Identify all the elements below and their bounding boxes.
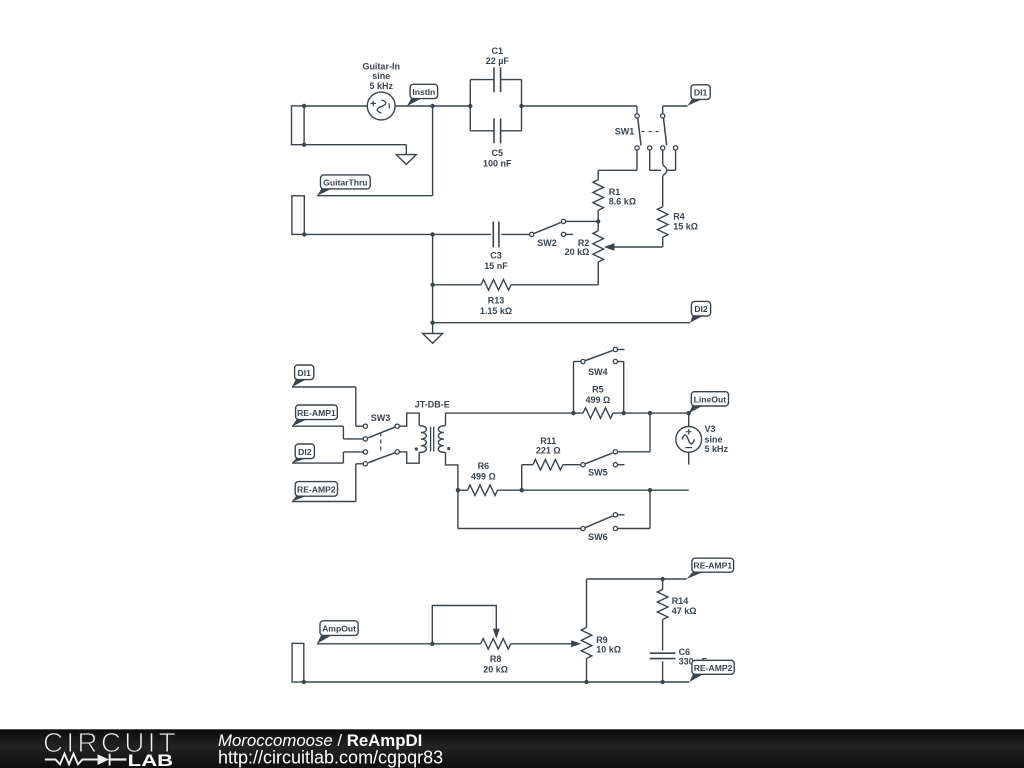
wire SW4 common riser [574,362,581,414]
svg-text:R14: R14 [672,596,689,606]
wire SW3 pole1 to T1 primary top [399,413,419,426]
svg-text:RE-AMP1: RE-AMP1 [297,408,336,418]
flag GuitarThru [317,175,370,196]
svg-text:SW2: SW2 [537,238,557,248]
svg-text:R11: R11 [540,436,556,446]
capacitor C3 [493,222,499,248]
node R9 bottom junction [584,680,588,684]
switch SW4 lever [585,351,612,361]
switch SW3 throw2b [363,462,367,466]
transformer T1 secondary winding [438,425,445,452]
switch SW5 throw1 [613,450,617,454]
resistor R14 [657,579,668,651]
transformer T1 phase dot secondary [447,447,450,450]
wire InstIn down to GuitarThru [432,106,434,196]
svg-text:20 kΩ: 20 kΩ [483,664,508,674]
svg-text:R5: R5 [592,384,604,394]
svg-text:20 kΩ: 20 kΩ [565,247,590,257]
potentiometer R9 [581,579,592,682]
flag LineOut [689,392,729,413]
node SW6 riser junction [648,488,652,492]
svg-text:10 kΩ: 10 kΩ [596,645,621,655]
label R2 [565,238,590,257]
transformer T1 phase dot primary [415,447,418,450]
svg-text:RE-AMP2: RE-AMP2 [694,663,733,673]
node R8 wiper junction [430,642,434,646]
svg-text:SW6: SW6 [588,532,608,542]
wire SW1 throw1b down [649,150,651,170]
wire bottom rail [304,681,690,683]
svg-text:SW4: SW4 [588,367,608,377]
svg-text:AmpOut: AmpOut [322,624,356,634]
switch SW3 throw1a [363,424,367,428]
wire C1C5 box [470,80,521,131]
label SW2 [537,238,557,248]
capacitor C5 [494,118,501,143]
wire to R6 [458,489,468,491]
switch SW3 throw2a [363,450,367,454]
label R11 [536,436,561,456]
footer bar [0,729,1024,768]
svg-text:499 Ω: 499 Ω [471,472,496,482]
switch SW6 lever [585,516,612,528]
label SW3 [371,413,391,423]
label R9 [596,635,621,655]
switch SW6 common [581,526,585,530]
label T1 JT-DB-E [415,400,450,410]
resistor R4 [657,207,668,247]
capacitor C6 [650,653,676,658]
wire jack J1 tip to V1 [304,105,367,107]
wire T1 secondary top rail [446,413,689,425]
label C1 [486,46,510,66]
switch SW2 lever [534,223,561,234]
label SW5 [588,467,608,477]
wire SW3 pole2 to T1 primary bottom [399,452,419,463]
label R13 [480,295,512,316]
wire SW5 throw1 riser [618,413,650,452]
svg-text:SW1: SW1 [615,127,635,137]
wire C3 to SW2 [501,233,529,235]
label R8 [483,654,508,674]
transformer T1 core [431,427,434,452]
switch SW1 throw1a [635,146,639,150]
switch SW1 throw2a [661,146,665,150]
switch SW3 pole1 common [395,424,399,428]
wire R6 to V3 bottom rail [498,489,689,491]
jack J1 Guitar-In 1/4in jack symbol [292,106,305,145]
svg-text:sine: sine [705,434,723,444]
svg-text:DI2: DI2 [694,304,708,314]
resistor R13 [481,280,511,291]
flag DI1 top [688,85,711,106]
svg-text:SW3: SW3 [371,413,391,423]
svg-text:RE-AMP1: RE-AMP1 [693,561,732,571]
node SW5 riser junction [648,411,652,415]
svg-text:DI2: DI2 [298,447,312,457]
wire RE-AMP1 to SW3 [292,426,363,439]
svg-text:LineOut: LineOut [694,394,727,404]
svg-text:Guitar-In: Guitar-In [362,61,400,71]
flag InstIn [407,84,438,106]
svg-text:22 µF: 22 µF [486,56,510,66]
svg-text:InstIn: InstIn [412,87,435,97]
label R6 [471,461,496,481]
wire R11 riser [522,465,533,491]
wire T1 secondary bottom [446,452,458,490]
svg-text:5 kHz: 5 kHz [705,444,729,454]
switch SW5 throw2 [613,463,624,467]
switch SW1 pole2 common [661,114,665,118]
resistor R11 [533,459,563,470]
flag RE-AMP1 mid [292,405,337,426]
svg-text:499 Ω: 499 Ω [586,395,611,405]
node C6 bottom junction [660,680,664,684]
switch SW5 lever [585,453,612,464]
wire SW1 throw1a to R1 [598,150,637,180]
transformer T1 primary winding [419,425,426,452]
wire R8 to R9 wiper [511,643,573,645]
node C3 row junction [430,232,434,236]
switch SW1 pole1 lever [638,118,641,145]
switch SW1 gang dashes [642,131,661,133]
wire C-box to SW1 [522,106,638,114]
node jack J2 sleeve junction [302,232,306,236]
switch SW2 throw2 [561,232,573,236]
flag RE-AMP1 bottom [687,558,734,579]
wire to R13 [433,284,481,286]
wire DI2 to SW3 [292,452,363,463]
svg-text:15 kΩ: 15 kΩ [673,222,698,232]
label C6 [679,647,708,666]
switch SW4 common [581,359,585,363]
label V3 [705,424,729,454]
node C-box right junction [519,104,523,108]
label R1 [609,187,636,207]
svg-text:C1: C1 [492,46,504,56]
wire R13 to R2 bottom [511,262,598,285]
wire ground stem 2 [432,323,434,334]
svg-text:R8: R8 [490,654,502,664]
wire SW4 throw2 riser [618,362,624,414]
resistor R6 [468,485,498,496]
wire SW6 common rail [458,490,581,528]
label R4 [673,212,698,232]
node R1-R2-SW2 junction [596,219,600,223]
svg-text:100 nF: 100 nF [483,159,512,169]
switch SW4 throw1 [613,347,624,351]
wire jack J1 sleeve to ground [304,145,406,155]
wire GuitarThru to InstIn column [317,195,433,197]
svg-text:R13: R13 [488,295,505,305]
ground GND2 [423,334,443,344]
svg-text:R1: R1 [609,187,621,197]
label SW4 [588,367,608,377]
flag RE-AMP2 mid [292,482,338,502]
label SW6 [588,532,608,542]
wire J2 to C3 [304,233,491,235]
wire R11 to SW5 [563,464,581,466]
wire down from C3 row [432,234,434,322]
wire SW2 throw1 to junction [566,220,598,222]
label V1 name [362,61,400,91]
voltage source V3 [676,413,702,464]
switch SW3 gang dashes [380,433,382,452]
switch SW2 common [530,232,534,236]
label C3 [484,251,508,272]
wire C6 to bottom rail [662,661,664,682]
wire SW6 throw2 riser [618,490,650,528]
svg-text:C3: C3 [490,251,502,261]
node jack J1 sleeve junction [302,143,306,147]
jack J3 AmpOut 1/4in jack symbol [292,643,304,682]
svg-text:47 kΩ: 47 kΩ [672,606,697,616]
switch SW1 pole1 common [635,114,639,118]
potentiometer R2 wiper arrow [604,243,663,250]
node InstIn junction [430,104,434,108]
node R6 left junction [456,488,460,492]
resistor R1 [593,180,604,222]
node R13 junction [430,283,434,287]
switch SW1 pole2 lever [664,118,667,145]
label R14 [672,596,697,616]
switch SW3 throw1b [363,437,367,441]
resistor R5 [583,408,613,419]
label SW1 [615,127,635,137]
svg-text:221 Ω: 221 Ω [536,446,561,456]
wire V1 to node InstIn [395,105,470,107]
switch SW3 pole2 lever [368,453,395,463]
node R6 right junction [520,488,524,492]
svg-text:5 kHz: 5 kHz [369,81,393,91]
wire AmpOut to R8 [317,643,481,645]
wire SW1 throw cross-link with hop [650,150,676,170]
flag DI2 mid [292,444,314,463]
voltage source V1 Guitar-In [367,92,395,120]
wire bottom top rail [587,578,687,580]
potentiometer R9 wiper arrow [571,640,581,647]
jack J2 GuitarThru 1/4in jack symbol [292,196,304,235]
switch SW5 common [581,463,585,467]
node jack J3 sleeve junction [302,680,306,684]
switch SW1 throw1b [648,146,652,150]
node R5 right junction [622,411,626,415]
svg-text:sine: sine [372,71,390,81]
svg-text:R6: R6 [478,461,490,471]
node LineOut junction [687,411,691,415]
switch SW6 throw1 [613,513,624,517]
svg-text:SW5: SW5 [588,467,608,477]
switch SW1 throw2b [673,146,677,150]
switch SW3 pole2 common [395,450,399,454]
svg-text:GuitarThru: GuitarThru [323,177,367,187]
svg-text:C5: C5 [492,148,504,158]
label C5 [483,148,512,169]
CircuitLab logo resistor-diode squiggle [45,754,127,766]
potentiometer R2 [593,221,604,284]
wire SW1 throw2a to R4 with s-jog [663,150,667,207]
flag DI1 mid [292,365,314,387]
svg-text:LAB: LAB [128,752,174,768]
svg-text:http://circuitlab.com/cgpqr83: http://circuitlab.com/cgpqr83 [218,747,443,767]
svg-text:1.15 kΩ: 1.15 kΩ [480,306,512,316]
svg-text:DI1: DI1 [298,368,312,378]
node C-box left junction [468,104,472,108]
wire SW1 pole2 common to DI1 [663,106,688,114]
capacitor C1 [494,67,501,92]
wire RE-AMP2 to SW3 [292,464,363,502]
ground GND1 [396,155,416,165]
switch SW3 pole1 lever [368,427,395,438]
potentiometer R8 wiper arrow [493,629,500,639]
wire DI1 to SW3 [292,387,363,426]
node DI2 junction [430,321,434,325]
node R5 left junction [571,411,575,415]
wire to DI2 [433,322,690,324]
svg-text:15 nF: 15 nF [484,261,508,271]
svg-text:RE-AMP2: RE-AMP2 [297,484,336,494]
wire R8 wiper loop [432,606,496,644]
svg-text:R9: R9 [596,635,608,645]
flag DI2 top [690,301,711,322]
label R5 [586,384,611,405]
node jack J1 tip junction [302,104,306,108]
switch SW4 throw2 [613,359,617,363]
svg-text:DI1: DI1 [694,88,708,98]
flag RE-AMP2 bottom [689,660,734,682]
flag AmpOut [317,621,358,644]
potentiometer R8 [481,639,511,650]
svg-text:V3: V3 [705,424,716,434]
svg-text:R4: R4 [673,212,685,222]
switch SW6 throw2 [613,526,617,530]
svg-text:8.6 kΩ: 8.6 kΩ [609,197,636,207]
node R14 top junction [660,577,664,581]
svg-text:JT-DB-E: JT-DB-E [415,400,450,410]
switch SW2 throw1 [561,219,565,223]
